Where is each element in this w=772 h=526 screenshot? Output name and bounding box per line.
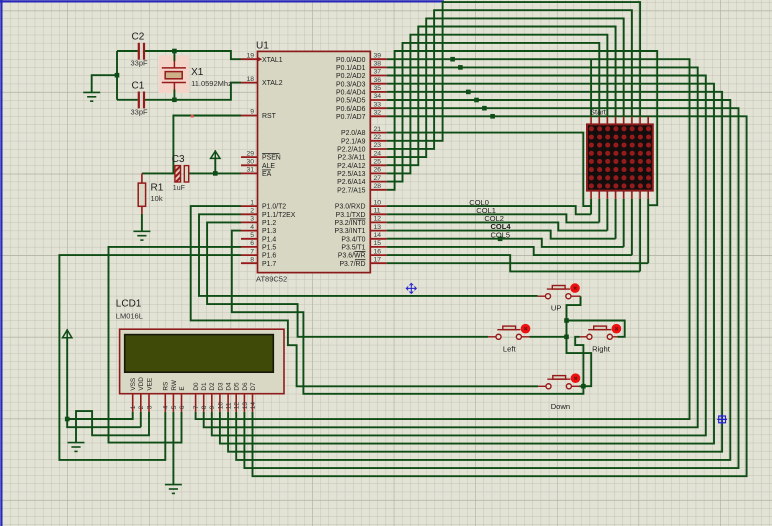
svg-text:19: 19 [246,52,254,59]
svg-text:P2.4/A12: P2.4/A12 [337,163,366,170]
U1 pin 34 (P0.5) stub and number [370,93,386,100]
wire left junction column + ground tap [92,51,117,100]
dot matrix top pin 5 [623,117,625,125]
U1 pin 1 (P1.0) stub and number [241,199,258,206]
wire P2.1 over the top to matrix top pin 6 [387,2,640,141]
svg-text:C2: C2 [132,32,145,43]
push button Left [488,326,529,339]
svg-text:15: 15 [374,240,382,247]
svg-text:P0.2/AD2: P0.2/AD2 [336,73,366,80]
wire C3 right plate to U1 EA pin 31 [189,172,241,174]
svg-text:P3.6/WR: P3.6/WR [338,253,366,260]
wire P2.7 around right of matrix to bottom pin 8 [387,51,658,205]
capacitor C2 [139,43,144,60]
U1 pin 10 (P3.0) stub and number [370,199,386,206]
wire joint on P0 row 4 [482,106,487,111]
ground (crystal caps) [83,92,100,101]
svg-text:28: 28 [374,183,382,190]
wire P0.0 to LCD D0 [196,59,690,419]
wire matrix bottom pin 8 drop [647,199,649,263]
wire P0.1 to LCD D1 [204,67,698,427]
svg-text:Start: Start [590,108,607,117]
svg-text:P3.5/T1: P3.5/T1 [341,245,365,252]
dot matrix top pin 3 [606,117,608,125]
wire P1.0 to Down button left [191,206,538,386]
svg-text:P2.3/A11: P2.3/A11 [338,155,366,162]
svg-text:4: 4 [163,405,170,409]
U1 XTAL1 pin arrow [258,57,262,61]
dot matrix bottom pin 7 [639,191,641,199]
svg-text:P0.7/AD7: P0.7/AD7 [336,114,366,121]
junction VSS tap on power column [65,417,70,422]
svg-text:XTAL1: XTAL1 [262,57,283,64]
dot matrix bottom pin 4 [615,191,617,199]
svg-text:26: 26 [374,167,382,174]
LCD1 pin 12 (D5) stub [235,394,237,412]
svg-text:21: 21 [374,126,382,133]
svg-text:P1.3: P1.3 [262,228,276,235]
ground (LCD VEE) [68,443,85,452]
svg-text:P0.6/AD6: P0.6/AD6 [336,106,366,113]
wire P2.4 over the top to matrix top pin 3 [387,27,616,166]
svg-text:7: 7 [250,248,254,255]
push button Down [538,376,579,389]
wire P1.1 to UP button left [199,214,538,296]
svg-text:D2: D2 [209,382,216,391]
U1 pin 13 (P3.3) stub and number [370,224,386,231]
capacitor C1 [139,92,144,109]
crystal X1 [162,61,186,90]
LCD1 LM016L body [120,329,284,394]
svg-text:P2.1/A9: P2.1/A9 [341,138,366,145]
svg-text:Right: Right [592,345,611,354]
U1 pin 2 (P1.1) stub and number [241,208,258,215]
svg-text:11: 11 [226,402,233,409]
U1 pin 9 (RST) stub and number [241,109,258,116]
svg-text:D5: D5 [234,382,241,391]
wire P1.2 to Left button left [207,222,488,336]
svg-text:P2.6/A14: P2.6/A14 [337,179,366,186]
wire P3.1 (COL1) to matrix bottom pin 2 column [387,214,600,222]
wire P3.6 to matrix bottom pin 7 [387,255,640,271]
svg-text:LM016L: LM016L [116,312,143,321]
wire P3.7 to matrix bottom pin 8 [387,262,649,264]
svg-text:13: 13 [374,224,382,231]
svg-text:12: 12 [374,216,382,223]
wire joint on P0 row 3 [474,98,479,103]
resistor R1 body [138,183,145,206]
junction left column / ground tap [115,73,120,78]
svg-text:VEE: VEE [146,378,153,391]
svg-text:33: 33 [374,101,382,108]
svg-text:E: E [179,386,186,390]
wire matrix bottom pin 2 drop [598,199,600,223]
svg-text:36: 36 [374,77,382,84]
svg-text:27: 27 [374,175,382,182]
wire power arrow to EA net [214,158,216,173]
svg-text:Left: Left [503,345,517,354]
svg-text:D1: D1 [201,382,208,391]
wire P1.6 to LCD RS pin [59,255,241,460]
svg-text:P1.1/T2EX: P1.1/T2EX [262,212,296,219]
svg-text:D4: D4 [226,382,233,391]
power +5V arrow (EA) [211,150,220,158]
LCD1 pin names [130,377,257,391]
svg-text:R1: R1 [151,183,164,194]
svg-text:6: 6 [250,240,254,247]
junction common node at Down button [581,384,586,389]
svg-text:P0.0/AD0: P0.0/AD0 [336,57,366,64]
dot matrix bottom pin 8 [647,191,649,199]
wire LCD VDD pin drop [140,412,142,427]
wire C2 right plate to node A [145,50,175,52]
svg-text:P2.7/A15: P2.7/A15 [337,187,366,194]
svg-text:LCD1: LCD1 [116,299,142,310]
svg-text:18: 18 [246,76,254,83]
svg-text:P3.7/RD: P3.7/RD [339,261,365,268]
svg-text:P3.0/RXD: P3.0/RXD [335,204,366,211]
blue square node marker [717,415,727,425]
dot matrix bottom pin 1 [590,191,592,199]
svg-text:11: 11 [374,208,381,215]
U1 pin 36 (P0.3) stub and number [370,77,386,84]
dot matrix top pin 8 [647,117,649,125]
capacitor C3 (right plate) [184,166,188,182]
wire P2.5 over the top to matrix top pin 2 [387,35,608,174]
LCD1 screen [125,335,274,373]
wire P0.4 to LCD D4 [228,92,722,452]
blue origin crosshair marker [406,283,416,293]
U1 pin 17 (P3.7) stub and number [370,256,386,263]
dot matrix display body [587,124,653,190]
dot matrix top pin 7 [639,117,641,125]
svg-text:38: 38 [374,61,382,68]
LCD1 pin 4 (RS) stub [164,394,166,412]
U1 pin 37 (P0.2) stub and number [370,69,386,76]
dot matrix top pin 4 [615,117,617,125]
wire matrix bottom pin 7 drop [639,199,641,272]
svg-text:10: 10 [374,199,382,206]
dot matrix top pin 1 [590,117,592,125]
svg-text:P1.5: P1.5 [262,245,276,252]
page border (blue sheet frame, top and left) [0,0,444,526]
svg-text:D0: D0 [193,382,200,391]
U1 pin 25 (P2.4) stub and number [370,159,386,166]
wire C2 left plate to junction column [117,50,138,52]
svg-text:P1.4: P1.4 [262,236,276,243]
wire joint on P0 row 1 [458,65,463,70]
wire joint on P0 row 0 [450,57,455,62]
U1 pin 19 (XTAL1) stub and number [241,52,258,59]
svg-text:33pF: 33pF [131,108,149,117]
svg-text:C3: C3 [172,154,185,165]
stray red mark on RST wire [191,115,194,118]
U1 pin 38 (P0.1) stub and number [370,61,386,68]
wire P2.2 over the top to matrix top pin 5 [387,10,632,149]
dot matrix bottom pin 3 [606,191,608,199]
wire P2.6 over the top to matrix top pin 1 [387,43,600,182]
svg-text:P1.0/T2: P1.0/T2 [262,204,286,211]
node B junction [172,98,177,103]
U1 pin 35 (P0.4) stub and number [370,85,386,92]
svg-text:31: 31 [246,167,254,174]
svg-text:35: 35 [374,85,382,92]
svg-text:P1.2: P1.2 [262,220,276,227]
svg-text:AT89C52: AT89C52 [256,275,287,284]
svg-text:P1.7: P1.7 [262,261,276,268]
node A junction [172,49,177,54]
ground (LCD RW) [165,485,182,494]
svg-text:P3.3/INT1: P3.3/INT1 [334,228,365,235]
wire P1.5 to LCD E pin [109,247,242,443]
svg-text:EA: EA [262,171,272,178]
svg-text:D6: D6 [242,382,249,391]
svg-text:30: 30 [246,159,254,166]
svg-text:XTAL2: XTAL2 [262,80,283,87]
wire P0.5 to LCD D5 [236,100,730,460]
dot matrix bottom pin 6 [631,191,633,199]
U1 pin 3 (P1.2) stub and number [241,216,258,223]
svg-text:9: 9 [250,109,254,116]
svg-text:5: 5 [250,232,254,239]
svg-text:UP: UP [551,304,562,313]
U1 pin names [262,57,366,268]
U1 pin 15 (P3.5) stub and number [370,240,386,247]
push button Right [580,326,618,339]
wire joint on P0 row 2 [466,90,471,95]
wire node A to X1 top [173,51,175,61]
svg-text:P2.5/A13: P2.5/A13 [337,171,366,178]
wire RST pin 9 to C3 left node [173,116,241,174]
LCD1 pin 10 (D3) stub [219,394,221,412]
svg-text:7: 7 [193,405,200,409]
svg-text:PSEN: PSEN [262,155,281,162]
svg-text:2: 2 [250,208,254,215]
junction EA net / power [213,171,218,176]
svg-text:8: 8 [201,405,208,409]
dot matrix top pin 2 [598,117,600,125]
U1 pin 27 (P2.6) stub and number [370,175,386,182]
LCD1 pin 11 (D4) stub [227,394,229,412]
U1 pin 24 (P2.3) stub and number [370,150,386,157]
U1 pin 33 (P0.6) stub and number [370,101,386,108]
wire P3.2 (COL2) to matrix bottom pin 3 column [387,222,608,230]
svg-text:22: 22 [374,134,382,141]
svg-text:RS: RS [163,382,170,391]
svg-text:P0.4/AD4: P0.4/AD4 [336,90,366,97]
svg-text:16: 16 [374,248,382,255]
svg-text:6: 6 [179,405,186,409]
U1 pin 14 (P3.4) stub and number [370,232,386,239]
svg-text:P0.5/AD5: P0.5/AD5 [336,98,366,105]
svg-text:14: 14 [374,232,382,239]
svg-text:2: 2 [138,405,145,409]
svg-text:VDD: VDD [138,377,145,391]
wire node B to U1 XTAL2 pin 18 [174,83,241,100]
svg-text:U1: U1 [256,41,269,52]
wire LCD RW to ground [172,412,174,485]
wire P2.0 to matrix bottom pin 1 [387,133,591,207]
U1 pin 4 (P1.3) stub and number [241,224,258,231]
wire UP right terminal chain to common node [567,296,592,386]
svg-text:VSS: VSS [130,378,137,391]
svg-text:D3: D3 [217,382,224,391]
wire matrix bottom pin 4 drop [615,199,617,239]
svg-text:1uF: 1uF [173,185,185,192]
push button UP [538,286,581,299]
svg-text:P3.4/T0: P3.4/T0 [341,236,365,243]
svg-text:P1.6: P1.6 [262,253,276,260]
U1 pin 8 (P1.7) stub and number [241,256,258,263]
svg-text:RW: RW [171,379,178,390]
svg-text:32: 32 [374,110,382,117]
LCD1 pin 5 (RW) stub [172,394,174,412]
wire Right button right terminal loop [567,321,625,337]
U1 pin 26 (P2.5) stub and number [370,167,386,174]
dot matrix LED dots 8x8 [589,126,651,188]
dot matrix bottom pin 2 [598,191,600,199]
LCD1 pin 14 (D7) stub [252,394,254,412]
ground (R1) [133,231,150,240]
svg-text:3: 3 [250,216,254,223]
wire X1 bottom to node B [173,90,175,100]
svg-text:13: 13 [242,402,249,410]
dot matrix top pin 6 [631,117,633,125]
U1 pin 6 (P1.5) stub and number [241,240,258,247]
wire matrix top pin 1 to P0.0 row [590,59,592,116]
svg-text:10k: 10k [151,194,163,203]
resistor R1 stubs [141,173,143,214]
U1 pin 16 (P3.6) stub and number [370,248,386,255]
svg-text:5: 5 [171,405,178,409]
U1 pin 7 (P1.6) stub and number [241,248,258,255]
svg-text:P2.2/A10: P2.2/A10 [337,147,366,154]
svg-text:10: 10 [217,402,224,410]
svg-text:P3.2/INT0: P3.2/INT0 [334,220,365,227]
wire Right button left terminal to common node [575,337,583,386]
wire power arrow down to VDD [67,338,141,427]
wire P3.5 (COL5) to matrix bottom pin 6 column [387,247,632,255]
svg-text:11.0592Mhz: 11.0592Mhz [191,79,232,88]
svg-text:8: 8 [250,256,254,263]
crystal X1 selection highlight [159,55,189,93]
LCD1 pin 6 (E) stub [181,394,183,412]
svg-text:P3.1/TXD: P3.1/TXD [336,212,366,219]
svg-text:3: 3 [146,405,153,409]
wire P0.7 to LCD D7 [253,116,747,476]
U1 pin 21 (P2.0) stub and number [370,126,386,133]
junction on COL5 row [498,237,503,242]
svg-text:P0.1/AD1: P0.1/AD1 [336,65,366,72]
LCD1 pin 2 (VDD) stub [140,394,142,412]
wire node A to U1 XTAL1 pin 19 [174,51,241,59]
wire C1 right plate to node B [145,99,175,101]
svg-text:34: 34 [374,93,382,100]
svg-text:D7: D7 [250,382,257,391]
power +5V arrow (LCD) [63,329,72,338]
U1 pin 29 (PSEN) stub and number [241,150,258,157]
svg-text:9: 9 [209,405,216,409]
U1 pin 31 (EA) stub and number [241,167,258,174]
U1 pin 39 (P0.0) stub and number [370,52,386,59]
wire P0.3 to LCD D3 [220,84,714,444]
wire P0.6 to LCD D6 [244,108,738,468]
wire matrix bottom pin 1 drop [590,199,592,215]
capacitor C3 (left hatched plate) [175,166,181,182]
svg-text:X1: X1 [191,67,204,78]
LCD1 pin numbers [130,402,257,410]
wire Down button right terminal to common node [579,385,583,387]
wire R1 top node to C3 left plate [142,172,175,174]
svg-text:25: 25 [374,159,382,166]
U1 pin 5 (P1.4) stub and number [241,232,258,239]
LCD1 pin 7 (D0) stub [195,394,197,412]
svg-text:39: 39 [374,52,382,59]
svg-text:24: 24 [374,150,382,157]
U1 pin 22 (P2.1) stub and number [370,134,386,141]
LCD1 pin 8 (D1) stub [203,394,205,412]
svg-text:Down: Down [551,402,570,411]
wire C1 left plate [117,99,138,101]
U1 pin 11 (P3.1) stub and number [370,208,386,215]
U1 pin 12 (P3.2) stub and number [370,216,386,223]
wire P2.3 over the top to matrix top pin 4 [387,18,624,157]
wire matrix bottom pin 3 drop [606,199,608,231]
wire matrix bottom pin 5 drop [623,199,625,247]
svg-text:14: 14 [250,402,257,410]
svg-text:P0.3/AD3: P0.3/AD3 [336,81,366,88]
svg-text:1: 1 [130,405,137,409]
U1 pin 32 (P0.7) stub and number [370,110,386,117]
svg-text:17: 17 [374,256,382,263]
svg-text:RST: RST [262,113,277,120]
U1 pin 30 (ALE) stub and number [241,159,258,166]
LCD1 pin 1 (VSS) stub [132,394,134,412]
U1 pin 18 (XTAL2) stub and number [241,76,258,83]
U1 pin 28 (P2.7) stub and number [370,183,386,190]
LCD1 pin 13 (D6) stub [243,394,245,412]
svg-text:C1: C1 [132,81,145,92]
junction chain/Right loop [564,318,569,323]
svg-text:29: 29 [246,150,254,157]
LCD1 pin 9 (D2) stub [211,394,213,412]
svg-text:33pF: 33pF [131,59,149,68]
wire P3.0 (COL0) to matrix bottom pin 1 column [387,206,591,214]
svg-text:12: 12 [234,402,241,410]
wire LCD VEE to ground [76,411,149,443]
svg-text:1: 1 [250,199,254,206]
svg-text:4: 4 [250,224,254,231]
svg-text:23: 23 [374,142,382,149]
wire R1 bottom to ground [141,214,143,231]
wire P1.3 to buttons common node [232,231,584,394]
svg-text:ALE: ALE [262,163,275,170]
svg-text:P2.0/A8: P2.0/A8 [341,130,366,137]
U1 pin 23 (P2.2) stub and number [370,142,386,149]
LCD1 pin 3 (VEE) stub [148,394,150,412]
dot matrix bottom pin 5 [623,191,625,199]
wire matrix bottom pin 6 drop [631,199,633,255]
microcontroller U1 (AT89C52) body [258,51,371,272]
wire Left button right terminal to chain [529,336,566,338]
wire P3.3 (COL3) to matrix bottom pin 4 column [387,231,616,239]
wire P0.2 to LCD D2 [212,76,706,436]
wire LCD VSS pin tap [67,412,133,419]
svg-text:37: 37 [374,69,382,76]
junction chain/Left terminal [564,335,569,340]
wire joint on P0 row 5 [490,114,495,119]
wire P3.4 (COL4) to matrix bottom pin 5 column [387,239,624,247]
